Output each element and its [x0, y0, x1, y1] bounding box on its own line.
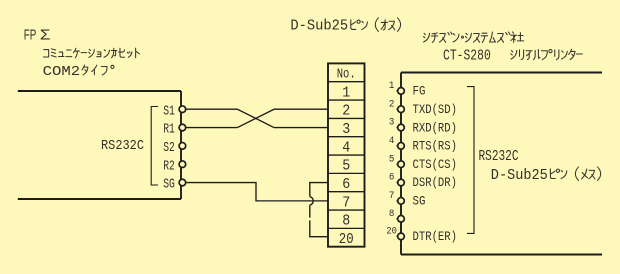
svg-text:RS232C: RS232C: [101, 138, 144, 154]
svg-text:8: 8: [342, 212, 350, 230]
svg-text:Σ: Σ: [40, 27, 51, 43]
svg-text:S2: S2: [163, 140, 175, 156]
svg-text:CTS(CS): CTS(CS): [413, 157, 458, 172]
svg-text:S1: S1: [163, 103, 175, 119]
svg-text:FG: FG: [413, 84, 426, 99]
svg-text:3: 3: [389, 117, 395, 129]
svg-text:7: 7: [389, 190, 395, 202]
svg-text:5: 5: [342, 157, 350, 175]
svg-text:20: 20: [386, 226, 397, 238]
svg-text:COM2: COM2: [43, 64, 80, 80]
svg-text:R2: R2: [163, 158, 175, 174]
svg-text:1: 1: [389, 80, 395, 92]
svg-text:6: 6: [342, 175, 350, 193]
svg-text:8: 8: [389, 208, 395, 220]
svg-text:4: 4: [342, 138, 350, 156]
svg-text:4: 4: [389, 135, 395, 147]
svg-text:6: 6: [389, 172, 395, 184]
svg-text:RS232C: RS232C: [479, 148, 519, 165]
svg-text:DTR(ER): DTR(ER): [413, 229, 458, 244]
svg-text:FP: FP: [24, 27, 37, 43]
svg-text:5: 5: [389, 153, 395, 165]
svg-text:1: 1: [342, 83, 350, 101]
svg-text:2: 2: [389, 98, 395, 110]
svg-text:CT-S280: CT-S280: [443, 48, 491, 65]
svg-text:DSR(DR): DSR(DR): [413, 175, 458, 190]
svg-text:D-Sub25: D-Sub25: [491, 167, 548, 184]
svg-text:SG: SG: [413, 194, 426, 209]
svg-text:RXD(RD): RXD(RD): [413, 120, 458, 135]
svg-text:3: 3: [342, 120, 350, 138]
svg-text:No.: No.: [337, 67, 356, 83]
svg-text:R1: R1: [163, 122, 175, 138]
svg-text:RTS(RS): RTS(RS): [413, 139, 458, 154]
svg-text:SG: SG: [163, 177, 175, 193]
svg-text:20: 20: [339, 230, 354, 248]
svg-text:TXD(SD): TXD(SD): [413, 102, 458, 117]
svg-text:D-Sub25: D-Sub25: [290, 18, 348, 35]
svg-text:7: 7: [342, 193, 350, 211]
svg-text:2: 2: [342, 102, 350, 120]
